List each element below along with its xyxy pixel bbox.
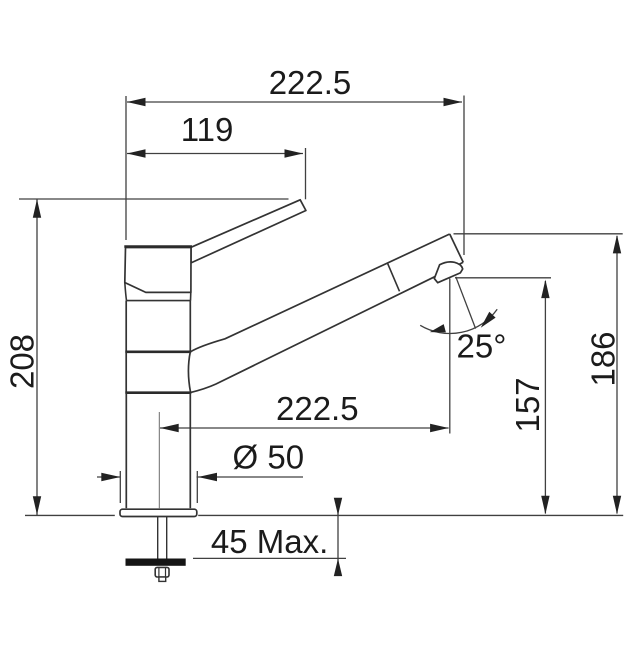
svg-text:119: 119 [181, 111, 234, 148]
svg-text:45 Max.: 45 Max. [211, 523, 328, 560]
svg-text:222.5: 222.5 [276, 390, 359, 427]
svg-text:222.5: 222.5 [269, 64, 352, 101]
svg-text:157: 157 [509, 377, 546, 432]
svg-text:208: 208 [4, 334, 41, 389]
svg-text:25°: 25° [457, 328, 507, 365]
svg-text:Ø 50: Ø 50 [233, 438, 305, 475]
svg-text:186: 186 [585, 331, 622, 386]
